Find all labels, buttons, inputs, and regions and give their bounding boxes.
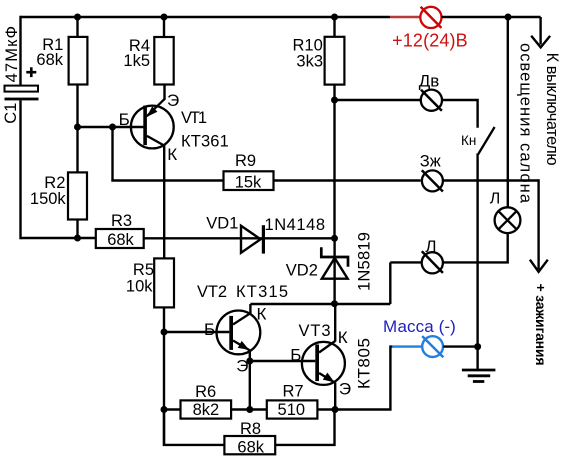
wire Л line left part [390, 261, 422, 263]
svg-text:1N5819: 1N5819 [355, 232, 373, 291]
wire R9 right to Зж connector [274, 179, 421, 181]
svg-text:Б: Б [119, 110, 130, 129]
svg-text:Л: Л [490, 191, 501, 208]
wire R2 bottom stub [76, 220, 78, 239]
wire R5 bottom rail down [163, 307, 165, 446]
node dot base branch [109, 124, 116, 131]
wire R8 right up to VT3 emitter node [275, 410, 334, 445]
svg-text:R3: R3 [111, 212, 132, 230]
svg-text:Э: Э [167, 91, 179, 110]
label + of C1 [26, 67, 36, 77]
switch Кн blade [478, 127, 495, 155]
node dot top rail at R4 [161, 14, 168, 21]
ground [462, 347, 496, 382]
svg-text:С1: С1 [2, 103, 20, 124]
svg-text:VD1: VD1 [206, 215, 238, 233]
svg-text:R8: R8 [240, 420, 261, 438]
connector Зж (circle with slash) [422, 170, 443, 191]
wire R3 to VD1 [144, 237, 335, 239]
resistor R2 [68, 172, 87, 219]
svg-text:VT1: VT1 [181, 109, 207, 127]
diode VD2 schottky [321, 238, 348, 304]
wire left rail lower [19, 100, 21, 239]
node dot top rail at R10 [331, 14, 338, 21]
svg-text:R10: R10 [293, 36, 323, 54]
svg-text:10k: 10k [126, 278, 153, 296]
svg-text:К выключателю: К выключателю [543, 53, 561, 166]
svg-text:Э: Э [339, 379, 351, 398]
wire VT3 emitter down [334, 382, 336, 409]
svg-text:R6: R6 [195, 383, 216, 401]
wire up to Л connector line [389, 262, 391, 304]
resistor R4 [154, 37, 173, 85]
svg-text:15k: 15k [235, 174, 262, 192]
svg-text:К: К [257, 305, 267, 324]
svg-text:68k: 68k [107, 231, 134, 249]
wire R4 top stub [163, 17, 165, 37]
node dot top rail at lamp branch [505, 14, 512, 21]
connector Дв (circle with slash) [421, 90, 442, 111]
wire node line VT2 collector to lamp branch [250, 303, 390, 305]
resistor R10 [325, 37, 345, 85]
wire R4 bottom to VT1 emitter [163, 85, 165, 100]
node dot base of VT1 [74, 124, 81, 131]
connector Л (circle with slash) [422, 251, 443, 273]
svg-text:VD2: VD2 [286, 262, 318, 280]
wire R1 bottom to R2 top [76, 85, 78, 173]
wire Зж connector to ignition arrow [442, 179, 538, 181]
wire VT2 emitter down [249, 350, 251, 361]
wire Дв node to Дв connector [335, 99, 421, 101]
wire Дв connector to switch [442, 100, 477, 128]
svg-text:68k: 68k [237, 438, 264, 456]
svg-text:+ зажигания: + зажигания [533, 284, 549, 366]
wire Дв node down to VD1 node [333, 100, 335, 238]
arrow to cabin light switch [531, 17, 550, 47]
svg-text:R7: R7 [282, 382, 303, 400]
wire Масса blue segment [392, 345, 422, 347]
resistor R1 [69, 37, 88, 85]
diode VD1 [241, 225, 263, 253]
svg-text:Кн: Кн [461, 133, 476, 148]
wire switch bottom down to ground node [476, 154, 478, 347]
svg-text:К: К [338, 328, 348, 347]
svg-text:+12(24)В: +12(24)В [392, 31, 468, 51]
svg-text:510: 510 [278, 401, 306, 419]
wire R7 right to VT3 emitter [317, 408, 335, 410]
node dot VT2 base tap [161, 329, 168, 336]
svg-text:3k3: 3k3 [296, 53, 323, 71]
wire Масса elbow [335, 347, 394, 410]
svg-text:Дв: Дв [419, 72, 440, 91]
wire R10 top stub [333, 17, 335, 37]
wire left rail upper [19, 16, 21, 86]
svg-text:68k: 68k [36, 51, 63, 69]
svg-text:1k5: 1k5 [123, 52, 150, 70]
node dot top rail at R1 [74, 14, 81, 21]
connector Масса (blue circle with slash) [422, 336, 443, 357]
resistor R7 [267, 400, 318, 418]
wire to R9 left [111, 179, 223, 181]
wire VT2 emitter node down to R6-R7 [249, 361, 251, 410]
resistor R3 [96, 229, 144, 248]
wire bottom left line to R3 [21, 237, 96, 239]
transistor VT3 [302, 341, 345, 385]
wire VT3 base [250, 360, 315, 362]
svg-text:КТ361: КТ361 [181, 133, 229, 151]
node dot R6 left [161, 406, 168, 413]
svg-text:VT3: VT3 [299, 322, 331, 340]
wire top rail red section [390, 16, 420, 18]
resistor R6 [181, 400, 232, 418]
node dot VD2 anode [331, 300, 338, 307]
svg-text:Э: Э [236, 357, 248, 376]
wire VT2 collector up to node line [249, 304, 251, 314]
wire R10 bottom to Дв node [333, 85, 335, 100]
wire Л connector to lamp bottom [443, 233, 508, 262]
node dot VD1 cathode [331, 235, 338, 242]
node dot R6-R7 junction [246, 406, 253, 413]
node dot ground [474, 343, 481, 350]
svg-text:КТ805: КТ805 [355, 338, 374, 389]
arrow + зажигания [530, 179, 548, 271]
svg-text:К: К [167, 145, 177, 164]
wire VT1 collector down to R5 [163, 145, 165, 258]
wire Масса connector to ground node [443, 345, 477, 347]
svg-text:Б: Б [204, 320, 215, 339]
transistor VT2 [217, 311, 261, 355]
node dot VT3 emitter [332, 406, 339, 413]
connector +12V (red circle with slash) [420, 7, 441, 28]
svg-text:47МкФ: 47МкФ [3, 26, 21, 83]
svg-text:1N4148: 1N4148 [265, 216, 326, 234]
resistor R5 [154, 258, 174, 307]
wire left rail to R8 [164, 410, 224, 445]
capacitor C1 negative plate [5, 98, 39, 101]
wire top rail left section [21, 16, 391, 18]
wire R1 top stub [76, 17, 78, 37]
svg-text:VT2: VT2 [197, 283, 227, 301]
svg-text:Б: Б [290, 345, 301, 364]
wire VT3 collector up to node [334, 304, 336, 342]
node dot R2 bottom [74, 235, 81, 242]
wire VT1 base [78, 126, 144, 128]
svg-text:Масса (-): Масса (-) [383, 317, 456, 336]
svg-text:Л: Л [425, 237, 436, 256]
svg-text:КТ315: КТ315 [236, 283, 288, 301]
svg-text:150k: 150k [30, 190, 67, 208]
svg-text:R9: R9 [235, 152, 256, 170]
wire top rail right section [442, 16, 541, 18]
resistor R9 [224, 171, 274, 190]
wire R6 to R7 [231, 408, 267, 410]
svg-text:R5: R5 [133, 261, 154, 279]
wire VT2 base [164, 331, 229, 333]
node dot VT2 emitter / VT3 base [246, 358, 253, 365]
label К выключателю освещения салона (rotated) [517, 43, 561, 204]
capacitor C1 positive plate [5, 86, 39, 92]
wire R6 left [164, 408, 181, 410]
wire branch down from base node [111, 127, 113, 181]
svg-text:Зж: Зж [420, 153, 441, 171]
svg-text:8k2: 8k2 [193, 401, 220, 419]
resistor R8 [224, 436, 275, 454]
lamp Л (circle with X) [495, 207, 521, 233]
node dot Дв branch [331, 97, 338, 104]
wire lamp top to +12V rail [507, 17, 509, 207]
transistor VT1 [131, 99, 174, 149]
